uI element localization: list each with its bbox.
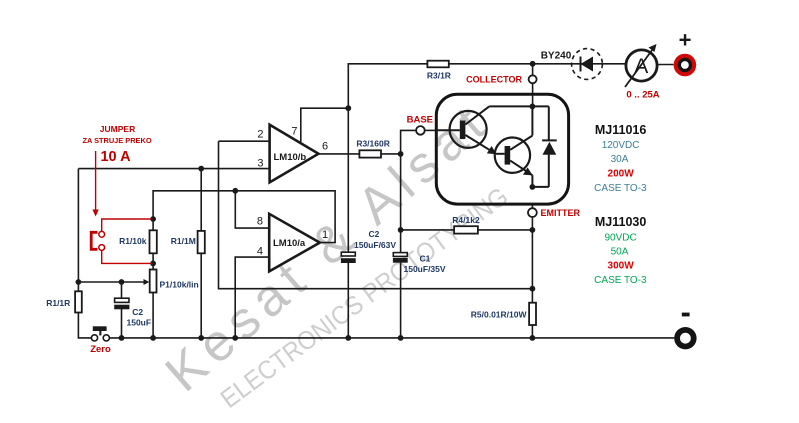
resistor R4/1k2 (454, 226, 478, 233)
svg-text:LM10/b: LM10/b (274, 152, 307, 163)
svg-text:Zero: Zero (90, 344, 111, 355)
junction rail C1 (398, 335, 404, 341)
transistor Q2 (495, 106, 533, 186)
svg-text:MJ11016: MJ11016 (595, 123, 646, 137)
wire pin2 vertical (219, 141, 533, 289)
junction rail R5 (530, 335, 536, 341)
resistor R1/1R (75, 291, 82, 312)
switch Zero (91, 335, 97, 341)
junction C1 R4 node (398, 227, 404, 233)
wire emitter package to circle (531, 203, 533, 209)
wire R1/1R to rail corner (78, 313, 91, 338)
svg-text:50A: 50A (611, 246, 629, 257)
wire bottom rail (109, 337, 674, 339)
jumper contact circles (99, 231, 105, 237)
svg-text:0 .. 25A: 0 .. 25A (626, 90, 659, 101)
resistor R1/1M (198, 231, 205, 253)
junction R1/1R top node (76, 279, 82, 285)
svg-text:8: 8 (257, 215, 263, 227)
svg-text:R5/0.01R/10W: R5/0.01R/10W (471, 310, 528, 320)
resistor R3/160R (359, 150, 381, 157)
svg-text:CASE TO-3: CASE TO-3 (594, 183, 647, 194)
wire R5 to rail (531, 325, 533, 338)
svg-text:90VDC: 90VDC (604, 232, 636, 243)
wire pot to rail (152, 293, 154, 338)
svg-text:R1/10k: R1/10k (119, 236, 147, 246)
svg-text:LM10/a: LM10/a (273, 238, 306, 249)
svg-text:1: 1 (322, 229, 328, 241)
terminal minus (674, 327, 696, 349)
op-amp U1a LM10/a (269, 214, 320, 272)
junction rail P1 (150, 335, 156, 341)
wire R4 right lead (478, 229, 533, 231)
wire base jog (401, 130, 417, 154)
wire base circle to package (425, 129, 438, 131)
svg-text:7: 7 (291, 126, 297, 138)
svg-text:R3/1R: R3/1R (427, 70, 451, 80)
svg-text:150uF: 150uF (127, 318, 152, 328)
wire collector circle to package (532, 83, 534, 106)
wire R4 left lead (401, 229, 455, 231)
junction rail C2b (345, 335, 351, 341)
package internal dots (530, 104, 536, 110)
svg-text:30A: 30A (611, 154, 629, 165)
transistor Q1 (436, 106, 532, 153)
wire pin3 left drop (77, 169, 79, 292)
wire wiper (78, 281, 145, 283)
jumper red arrow (95, 151, 97, 211)
svg-text:ZA STRUJE PREKO: ZA STRUJE PREKO (82, 136, 151, 145)
junction R1/10k bottom node (150, 261, 156, 267)
capacitor C2 150uF/63V (341, 252, 355, 256)
svg-text:BY240: BY240 (541, 51, 572, 62)
svg-text:R3/160R: R3/160R (356, 138, 390, 148)
wire top rail (348, 64, 427, 108)
wire collector drop (532, 64, 534, 76)
junction emitter sense node (530, 286, 536, 292)
resistor R3/1R (427, 61, 448, 68)
svg-text:6: 6 (322, 141, 328, 153)
wire feedback top (153, 191, 335, 243)
svg-text:3: 3 (257, 157, 263, 169)
junction rail C2 (119, 335, 125, 341)
wire C2a bottom lead (121, 309, 123, 338)
wire pin4 (235, 257, 269, 338)
svg-text:CASE TO-3: CASE TO-3 (594, 275, 647, 286)
svg-text:C2: C2 (369, 229, 380, 239)
svg-text:150uF/35V: 150uF/35V (404, 264, 446, 274)
svg-text:120VDC: 120VDC (602, 140, 640, 151)
jumper wires (102, 219, 152, 263)
wire pin2 (219, 140, 270, 142)
wire C2b to bottom rail (347, 263, 349, 338)
svg-text:JUMPER: JUMPER (100, 124, 135, 134)
capacitor C1 150uF/35V (393, 253, 407, 257)
junction feedback pin8 node (232, 188, 238, 194)
wire pin3 (78, 168, 269, 170)
wire R3/160R to node (381, 153, 401, 155)
wire node down to R4 node (400, 154, 402, 230)
wire C1 to bottom rail (400, 263, 402, 338)
capacitor C2 150uF (115, 298, 129, 302)
svg-text:200W: 200W (608, 168, 635, 179)
wire R1/10k to pot (152, 253, 154, 269)
junction rail pin4 (232, 335, 238, 341)
junction R3/160R output node (398, 151, 404, 157)
svg-text:R4/1k2: R4/1k2 (452, 215, 480, 225)
svg-text:C1: C1 (420, 253, 431, 263)
wire top rail right of R3/1R (449, 63, 572, 65)
svg-text:R1/1R: R1/1R (46, 298, 70, 308)
wire C2a top lead (121, 282, 123, 298)
node collector circle (529, 75, 537, 83)
op-amp U1b LM10/b (270, 125, 319, 183)
wire ammeter to plus terminal (657, 64, 674, 66)
wire through BY240 (572, 63, 603, 65)
junction pin7 node (345, 105, 351, 111)
resistor R5/0.01R/10W (529, 303, 536, 325)
svg-text:EMITTER: EMITTER (541, 208, 581, 218)
wire R1/1M top lead (200, 169, 202, 231)
wire R1/1M bottom lead (200, 253, 202, 338)
svg-text:C2: C2 (132, 307, 143, 317)
diode D1 in package (532, 106, 556, 186)
junction R1/10k top node (150, 216, 156, 222)
junction collector top node (530, 61, 536, 67)
wire pin7 to top vertical (301, 108, 349, 143)
svg-text:150uF/63V: 150uF/63V (354, 240, 396, 250)
wire BY240 to ammeter (602, 63, 626, 65)
junction R1/1M top node (198, 166, 204, 172)
wire R4 node to C1 (400, 230, 402, 253)
svg-text:COLLECTOR: COLLECTOR (466, 75, 522, 85)
ammeter (626, 50, 657, 81)
wire center vertical to C2b (347, 108, 349, 252)
jumper bracket (91, 232, 97, 249)
resistor R1/10k (150, 230, 157, 253)
svg-text:4: 4 (257, 246, 263, 258)
svg-text:+: + (679, 28, 692, 53)
junction emitter R4 node (530, 227, 536, 233)
transistor package MJ (436, 94, 568, 204)
wire R1/10k top lead (152, 219, 154, 230)
wire pin8 branch (235, 191, 269, 228)
svg-text:BASE: BASE (407, 114, 433, 125)
node emitter circle (528, 208, 537, 217)
svg-text:2: 2 (257, 129, 263, 141)
terminal plus (674, 54, 697, 77)
diode BY240 (572, 49, 603, 80)
svg-text:300W: 300W (608, 261, 635, 272)
potentiometer P1/10k/lin (150, 270, 157, 293)
node base circle (416, 126, 425, 135)
wire emitter circle down (531, 217, 533, 303)
svg-text:P1/10k/lin: P1/10k/lin (160, 279, 199, 289)
svg-text:10 A: 10 A (100, 149, 131, 165)
svg-text:MJ11030: MJ11030 (595, 215, 646, 229)
junction C2 wiper node (119, 279, 125, 285)
junction rail R1/1M (198, 335, 204, 341)
svg-text:R1/1M: R1/1M (171, 236, 196, 246)
wire op-amp b output (319, 153, 360, 155)
